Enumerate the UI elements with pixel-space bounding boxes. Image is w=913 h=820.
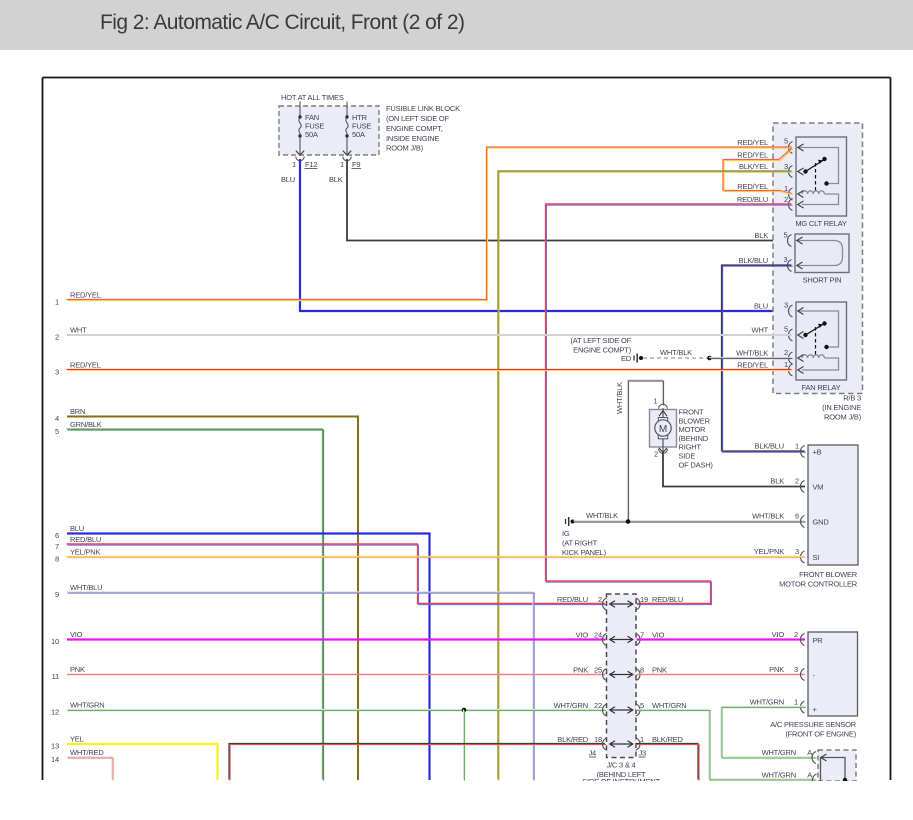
svg-text:6: 6	[55, 531, 59, 540]
svg-text:5: 5	[784, 231, 788, 240]
pin 3 SI	[795, 547, 804, 563]
wire WHT/GRN sensor pin 1 to connector row 1	[721, 698, 817, 759]
svg-text:1: 1	[795, 442, 799, 451]
svg-text:24: 24	[594, 631, 602, 640]
svg-text:3: 3	[55, 368, 59, 377]
svg-text:KICK PANEL): KICK PANEL)	[562, 548, 607, 557]
pin 1 MG CLT	[784, 184, 803, 200]
svg-text:2: 2	[55, 333, 59, 342]
svg-text:YEL/PNK: YEL/PNK	[754, 547, 784, 556]
wire 11 PNK to J/C pin 25	[52, 665, 606, 681]
svg-text:BLK/BLU: BLK/BLU	[755, 442, 784, 451]
svg-text:R/B 3: R/B 3	[843, 394, 861, 403]
fuse FAN FUSE 50A	[296, 106, 325, 161]
node HOT AT ALL TIMES	[281, 93, 347, 106]
wire BLK F9 to short pin 5	[347, 159, 792, 241]
svg-text:3: 3	[784, 255, 788, 264]
svg-text:1: 1	[292, 160, 296, 169]
pin F9	[340, 160, 361, 169]
svg-text:ENGINE COMPT,: ENGINE COMPT,	[386, 124, 443, 133]
svg-text:J3: J3	[639, 749, 647, 758]
svg-text:(AT LEFT SIDE OF: (AT LEFT SIDE OF	[570, 336, 631, 345]
svg-text:RED/BLU: RED/BLU	[737, 195, 768, 204]
svg-text:FRONT BLOWER: FRONT BLOWER	[799, 570, 858, 579]
svg-text:10: 10	[51, 637, 59, 646]
svg-text:RIGHT: RIGHT	[679, 443, 702, 452]
svg-text:8: 8	[640, 666, 644, 675]
svg-text:PNK: PNK	[769, 665, 784, 674]
svg-text:WHT/GRN: WHT/GRN	[762, 771, 796, 780]
wire 2 WHT to fan relay pin 5	[55, 326, 792, 342]
svg-text:1: 1	[654, 397, 658, 406]
pin 2 MG CLT	[784, 195, 803, 211]
pin 3 minus	[794, 665, 804, 681]
wire 5 GRN/BLK	[55, 420, 324, 781]
fuse HTR FUSE 50A	[343, 106, 372, 161]
wire WHT/BLK IG to controller GND	[573, 511, 805, 522]
svg-text:VIO: VIO	[576, 631, 589, 640]
svg-text:RED/BLU: RED/BLU	[557, 595, 588, 604]
svg-text:FAN RELAY: FAN RELAY	[802, 383, 841, 392]
svg-text:2: 2	[794, 630, 798, 639]
svg-text:A/C PRESSURE SENSOR: A/C PRESSURE SENSOR	[770, 720, 857, 729]
label BLK/YEL	[739, 162, 768, 171]
svg-text:1: 1	[784, 360, 788, 369]
svg-text:MOTOR CONTROLLER: MOTOR CONTROLLER	[779, 580, 858, 589]
svg-text:VIO: VIO	[652, 631, 665, 640]
svg-text:WHT/BLU: WHT/BLU	[70, 583, 102, 592]
svg-text:HOT AT ALL TIMES: HOT AT ALL TIMES	[281, 93, 344, 102]
svg-text:5: 5	[784, 137, 788, 146]
label RED/YEL loop	[737, 151, 768, 160]
svg-text:WHT/RED: WHT/RED	[70, 748, 104, 757]
svg-text:VIO: VIO	[70, 630, 83, 639]
wire WHT/BLK motor pin 1 branch	[615, 380, 664, 522]
svg-text:5: 5	[55, 427, 59, 436]
svg-text:3: 3	[784, 301, 788, 310]
wire BLU F12 to fan relay pin 3	[300, 159, 792, 311]
wire 6 BLU	[55, 524, 429, 780]
svg-text:WHT/BLK: WHT/BLK	[752, 512, 784, 521]
node junction WHT/BLK	[707, 356, 712, 361]
label BLK	[329, 175, 343, 184]
wire RED/YEL loop MG CLT pin 5 to pin 1	[723, 148, 793, 195]
svg-text:2: 2	[598, 595, 602, 604]
fusible link block note	[386, 104, 460, 153]
pin 5 MG CLT	[784, 137, 803, 154]
svg-text:1: 1	[55, 298, 59, 307]
label BLK short pin 5	[754, 231, 768, 240]
svg-text:BLK/YEL: BLK/YEL	[739, 162, 768, 171]
svg-text:WHT/BLK: WHT/BLK	[660, 348, 692, 357]
pin 3 MG CLT	[784, 162, 803, 178]
label RED/YEL pin1	[737, 182, 768, 191]
svg-text:A: A	[807, 748, 812, 757]
svg-text:1: 1	[794, 698, 798, 707]
connector bottom right	[818, 750, 856, 782]
J/C row pins 25/8	[573, 666, 667, 681]
svg-text:8: 8	[55, 555, 59, 564]
svg-text:19: 19	[640, 595, 648, 604]
svg-text:5: 5	[640, 701, 644, 710]
svg-text:9: 9	[55, 590, 59, 599]
svg-text:2: 2	[654, 450, 658, 459]
svg-text:18: 18	[594, 735, 602, 744]
wire 7 RED/BLU to J/C pin 2	[55, 535, 606, 605]
svg-text:WHT/GRN: WHT/GRN	[554, 701, 588, 710]
svg-text:4: 4	[55, 414, 59, 423]
fusible link block box	[279, 106, 379, 155]
svg-text:WHT/BLK: WHT/BLK	[615, 382, 624, 414]
pin 5 SHORT PIN	[784, 231, 803, 247]
svg-text:RED/YEL: RED/YEL	[737, 182, 768, 191]
svg-text:BLK/RED: BLK/RED	[652, 735, 683, 744]
wire 8 YEL/PNK to controller SI	[55, 547, 805, 564]
svg-text:WHT: WHT	[752, 326, 769, 335]
junction box R/B 3	[773, 123, 863, 422]
svg-text:WHT: WHT	[70, 326, 87, 335]
svg-text:PNK: PNK	[652, 666, 667, 675]
svg-text:PNK: PNK	[70, 665, 85, 674]
controller U3 FRONT BLOWER MOTOR CONTROLLER	[779, 445, 858, 589]
wire BLK/RED J/C pin 1 down	[636, 743, 699, 780]
svg-text:6: 6	[795, 512, 799, 521]
svg-text:F12: F12	[305, 160, 317, 169]
svg-text:WHT/BLK: WHT/BLK	[586, 511, 618, 520]
svg-text:PNK: PNK	[573, 666, 588, 675]
svg-text:BLK/BLU: BLK/BLU	[739, 256, 768, 265]
svg-text:+B: +B	[813, 448, 822, 457]
svg-text:(IN ENGINE: (IN ENGINE	[822, 403, 861, 412]
svg-text:(AT RIGHT: (AT RIGHT	[562, 539, 598, 548]
svg-text:ROOM J/B): ROOM J/B)	[824, 413, 862, 422]
svg-text:2: 2	[784, 348, 788, 357]
svg-text:7: 7	[640, 631, 644, 640]
svg-text:FRONT: FRONT	[679, 408, 704, 417]
wire BLK motor pin 2 to controller VM	[663, 452, 805, 486]
svg-text:IG: IG	[562, 529, 570, 538]
node junction motor/IG	[626, 519, 631, 524]
svg-text:3: 3	[784, 162, 788, 171]
svg-text:OF DASH): OF DASH)	[679, 460, 714, 469]
pin 1 +B	[795, 442, 804, 458]
svg-text:RED/BLU: RED/BLU	[70, 535, 101, 544]
bottom clip mask	[0, 781, 913, 820]
wire 14 WHT/RED	[51, 748, 113, 781]
svg-text:YEL: YEL	[70, 735, 84, 744]
wire 13 YEL	[51, 735, 217, 781]
svg-text:25: 25	[594, 666, 602, 675]
svg-text:BLK: BLK	[754, 231, 768, 240]
svg-text:ROOM J/B): ROOM J/B)	[386, 144, 424, 153]
pin 3 FAN RELAY	[784, 301, 803, 318]
svg-text:M: M	[659, 424, 667, 435]
wire RED/BLU MG CLT pin 2 to J/C pin 19	[546, 204, 793, 605]
motor note	[679, 408, 714, 470]
header band	[0, 0, 913, 50]
svg-text:BLU: BLU	[70, 524, 84, 533]
wire BLK/YEL MG CLT pin 3	[498, 171, 793, 781]
label BLU	[281, 175, 295, 184]
svg-text:MOTOR: MOTOR	[679, 425, 707, 434]
svg-text:ED: ED	[621, 354, 632, 363]
svg-text:SIDE: SIDE	[679, 452, 696, 461]
wire BLK/BLU short pin 3 to controller +B	[721, 256, 805, 452]
svg-text:(ON LEFT SIDE OF: (ON LEFT SIDE OF	[386, 114, 450, 123]
svg-text:BLK/RED: BLK/RED	[557, 735, 588, 744]
svg-text:(BEHIND: (BEHIND	[679, 434, 709, 443]
svg-text:22: 22	[594, 701, 602, 710]
svg-text:YEL/PNK: YEL/PNK	[70, 548, 100, 557]
svg-text:BLU: BLU	[281, 175, 295, 184]
svg-text:1: 1	[640, 735, 644, 744]
svg-text:14: 14	[51, 755, 59, 764]
svg-text:SHORT PIN: SHORT PIN	[803, 276, 842, 285]
ground ED	[570, 336, 643, 363]
svg-text:2: 2	[784, 195, 788, 204]
wire VIO J/C pin 7 to sensor pin 2	[637, 630, 806, 640]
svg-text:WHT/GRN: WHT/GRN	[750, 698, 784, 707]
svg-text:1: 1	[340, 160, 344, 169]
svg-text:BLU: BLU	[754, 302, 768, 311]
svg-text:J4: J4	[588, 749, 596, 758]
connector SHORT PIN	[795, 234, 849, 285]
relay U2 FAN RELAY	[796, 302, 847, 392]
svg-text:WHT/GRN: WHT/GRN	[652, 701, 686, 710]
svg-text:12: 12	[51, 708, 59, 717]
wire WHT/GRN J/C pin 5 to connector row 2	[636, 709, 817, 780]
wire 3 RED/YEL to fan relay pin 1	[55, 361, 793, 377]
pin A row 1	[762, 748, 827, 764]
wire WHT/GRN branch down	[463, 709, 464, 780]
svg-text:A: A	[807, 771, 812, 780]
wire BLK/RED left to J/C pin 18	[229, 743, 606, 780]
svg-text:BLOWER: BLOWER	[679, 416, 711, 425]
wire 9 WHT/BLU	[55, 583, 534, 781]
sensor U4 A/C PRESSURE SENSOR	[770, 632, 857, 739]
svg-text:FUSIBLE LINK BLOCK: FUSIBLE LINK BLOCK	[386, 104, 460, 113]
label RED/YEL pin5	[737, 138, 768, 147]
svg-text:WHT/GRN: WHT/GRN	[70, 701, 104, 710]
svg-text:7: 7	[55, 542, 59, 551]
svg-text:WHT/GRN: WHT/GRN	[762, 748, 796, 757]
pin 5 FAN RELAY	[784, 325, 803, 342]
svg-text:GND: GND	[813, 518, 830, 527]
svg-text:INSIDE ENGINE: INSIDE ENGINE	[386, 134, 439, 143]
pin 2 PR	[794, 630, 804, 646]
label BLU fan relay pin 3	[754, 302, 768, 311]
svg-text:BLK: BLK	[329, 175, 343, 184]
node junction WHT/GRN	[462, 708, 467, 713]
J/C row pins 24/7	[576, 631, 665, 646]
motor M1 FRONT BLOWER MOTOR	[650, 397, 677, 459]
svg-text:VIO: VIO	[772, 630, 785, 639]
svg-text:VM: VM	[813, 483, 824, 492]
pin A row 2	[762, 771, 817, 787]
pin 1 FAN RELAY	[784, 360, 803, 376]
J/C row pins 22/5	[554, 701, 687, 716]
svg-text:3: 3	[795, 547, 799, 556]
svg-text:RED/YEL: RED/YEL	[737, 361, 768, 370]
svg-text:RED/BLU: RED/BLU	[652, 595, 683, 604]
svg-text:2: 2	[795, 477, 799, 486]
ground IG	[562, 517, 607, 557]
svg-text:13: 13	[51, 742, 59, 751]
svg-text:RED/YEL: RED/YEL	[70, 361, 101, 370]
svg-text:5: 5	[784, 325, 788, 334]
svg-text:RED/YEL: RED/YEL	[737, 151, 768, 160]
svg-text:GRN/BLK: GRN/BLK	[70, 420, 102, 429]
svg-text:50A: 50A	[305, 130, 318, 139]
frame border	[43, 78, 891, 781]
wire 10 VIO to J/C pin 24	[51, 630, 605, 646]
pin F12	[292, 160, 317, 169]
J/C row pins 2/19	[557, 595, 683, 610]
junction connector J/C 3 & 4	[582, 594, 660, 786]
svg-text:3: 3	[794, 665, 798, 674]
wire 1 RED/YEL to MG CLT pin 5	[55, 147, 793, 307]
svg-text:PR: PR	[813, 636, 824, 645]
pin 2 VM	[795, 477, 804, 493]
label RED/BLU pin2	[737, 195, 768, 204]
svg-text:BRN: BRN	[70, 407, 85, 416]
wire WHT/BLK junction to fan relay pin 2	[709, 349, 793, 359]
svg-text:WHT/BLK: WHT/BLK	[736, 349, 768, 358]
wire 12 WHT/GRN to J/C pin 22	[51, 701, 606, 717]
svg-text:SI: SI	[813, 553, 820, 562]
wire WHT/BLK dashed ED to junction	[643, 348, 710, 358]
pin 1 plus	[794, 698, 804, 714]
svg-text:RED/YEL: RED/YEL	[70, 291, 101, 300]
svg-text:Fig 2: Automatic A/C Circuit,: Fig 2: Automatic A/C Circuit, Front (2 o…	[100, 11, 464, 34]
J/C row pins 18/1	[557, 735, 683, 750]
svg-text:BLK: BLK	[770, 477, 784, 486]
svg-text:50A: 50A	[352, 130, 365, 139]
pin 6 GND	[795, 512, 804, 528]
svg-text:MG CLT RELAY: MG CLT RELAY	[795, 219, 847, 228]
svg-text:(FRONT OF ENGINE): (FRONT OF ENGINE)	[785, 730, 856, 739]
pin 2 FAN RELAY	[784, 348, 803, 364]
pin 3 SHORT PIN	[784, 255, 803, 272]
relay U1 MG CLT RELAY	[795, 137, 847, 228]
svg-text:RED/YEL: RED/YEL	[737, 138, 768, 147]
wire 4 BRN	[55, 407, 358, 780]
svg-text:F9: F9	[352, 160, 360, 169]
wire PNK J/C pin 8 to sensor pin 3	[637, 665, 806, 675]
svg-text:J/C 3 & 4: J/C 3 & 4	[606, 760, 635, 769]
svg-text:11: 11	[52, 672, 59, 681]
label BLK/BLU +B	[755, 442, 784, 451]
